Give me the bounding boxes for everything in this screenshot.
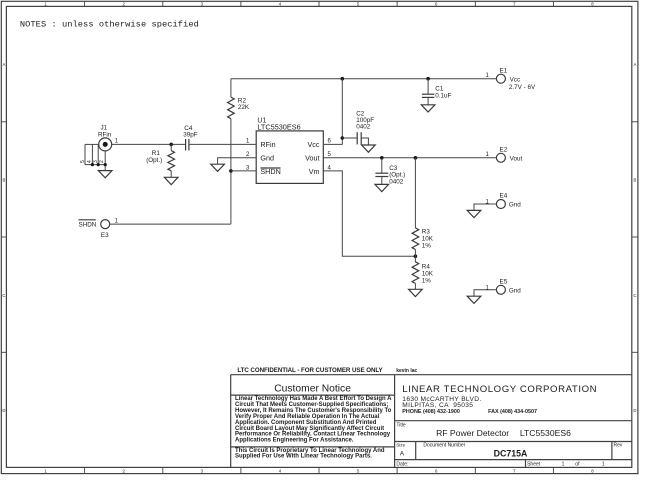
terminal E4: [496, 200, 505, 209]
svg-text:(Opt.): (Opt.): [146, 157, 162, 164]
svg-text:B: B: [633, 178, 636, 183]
svg-text:RF Power Detector: RF Power Detector: [436, 428, 509, 438]
svg-text:C: C: [2, 293, 5, 298]
svg-text:Vout: Vout: [510, 155, 523, 162]
svg-text:Vcc: Vcc: [510, 76, 520, 83]
svg-text:Supplied For Use With Linear T: Supplied For Use With Linear Technology …: [235, 454, 372, 460]
capacitor C4: [185, 139, 187, 150]
svg-text:22K: 22K: [238, 104, 250, 111]
svg-text:D: D: [633, 408, 636, 413]
resistor R3: [414, 158, 416, 228]
svg-text:39pF: 39pF: [183, 132, 198, 139]
svg-text:Vm: Vm: [309, 167, 320, 176]
svg-text:PHONE (408) 432-1900: PHONE (408) 432-1900: [402, 409, 460, 415]
op IC U1: [256, 131, 323, 184]
J1 shield pin numbers: [80, 160, 105, 163]
svg-text:Gnd: Gnd: [260, 153, 274, 162]
ground E5: [467, 296, 481, 303]
svg-text:Rev: Rev: [614, 442, 623, 448]
capacitor C2: [342, 137, 357, 139]
notice heading divider: [231, 394, 395, 396]
line under size/docnum row: [395, 459, 632, 461]
size column divider: [415, 442, 417, 460]
notice separator line: [231, 446, 395, 448]
svg-text:1%: 1%: [422, 243, 432, 250]
node rail/C1 junction: [426, 77, 430, 81]
svg-text:E4: E4: [500, 193, 508, 200]
svg-text:of: of: [575, 461, 580, 467]
svg-text:2: 2: [99, 160, 105, 163]
node R3 tap: [414, 156, 418, 160]
svg-text:1: 1: [602, 461, 605, 467]
border column ticks bottom: [85, 467, 554, 473]
border column numbers bottom: [44, 469, 594, 474]
node C3 tap: [380, 156, 384, 160]
svg-text:LINEAR TECHNOLOGY CORPORATION: LINEAR TECHNOLOGY CORPORATION: [402, 384, 597, 395]
svg-text:B: B: [2, 178, 5, 183]
wire pin2 Gnd: [218, 158, 257, 164]
terminal E1: [496, 74, 505, 83]
capacitor C1: [427, 79, 429, 95]
svg-text:Customer Notice: Customer Notice: [274, 384, 351, 395]
svg-text:10K: 10K: [422, 271, 434, 278]
resistor R4: [412, 262, 419, 284]
svg-text:0.1uF: 0.1uF: [435, 92, 451, 99]
customer notice box left edge: [230, 375, 232, 468]
border row letters left: [2, 62, 5, 413]
terminal E2: [496, 153, 505, 162]
border row letters right: [633, 62, 636, 413]
svg-text:A: A: [400, 451, 405, 458]
svg-text:DC715A: DC715A: [494, 448, 528, 458]
svg-text:1%: 1%: [422, 278, 432, 285]
ground E4: [467, 210, 481, 217]
svg-text:0402: 0402: [356, 124, 371, 131]
svg-text:Gnd: Gnd: [509, 202, 521, 209]
svg-text:R4: R4: [422, 264, 431, 271]
ground C1: [421, 105, 435, 112]
capacitor C3: [381, 158, 383, 173]
svg-text:A: A: [633, 62, 636, 67]
rev column divider: [611, 442, 613, 460]
svg-text:E2: E2: [500, 146, 508, 153]
node R3/R4/Vm junction: [414, 254, 418, 258]
node C2 tap: [341, 136, 345, 140]
wire pin4 Vm: [323, 171, 415, 256]
wire Vcc rail: [231, 78, 497, 80]
wire RFin: J1 to C4: [112, 143, 186, 145]
terminal E5: [496, 285, 505, 294]
svg-text:Sheet: Sheet: [527, 461, 541, 467]
svg-text:Vout: Vout: [305, 153, 319, 162]
svg-text:Date:: Date:: [396, 461, 408, 467]
svg-text:RFin: RFin: [98, 131, 112, 138]
node rail/Vcc vertical junction: [341, 77, 345, 81]
svg-text:E1: E1: [500, 67, 508, 74]
svg-text:Size: Size: [396, 443, 405, 448]
svg-text:LTC CONFIDENTIAL - FOR CUSTOME: LTC CONFIDENTIAL - FOR CUSTOMER USE ONLY: [237, 367, 383, 374]
border column ticks top: [85, 1, 554, 6]
svg-text:5: 5: [80, 160, 86, 163]
svg-text:SHDN: SHDN: [79, 221, 97, 228]
svg-text:LTC5530ES6: LTC5530ES6: [257, 122, 300, 131]
resistor R1: [170, 144, 172, 150]
svg-text:Applications Engineering For A: Applications Engineering For Assistance.: [235, 438, 354, 444]
wire pin3 SHDN: [231, 170, 256, 172]
svg-text:E5: E5: [500, 279, 508, 286]
svg-text:RFin: RFin: [260, 140, 275, 149]
svg-text:NOTES : unless otherwise speci: NOTES : unless otherwise specified: [20, 20, 199, 30]
wire pin6 Vcc to vertical: [323, 79, 342, 145]
resistor R2: [230, 79, 232, 97]
svg-text:kevin lac: kevin lac: [396, 368, 417, 374]
svg-text:1: 1: [562, 461, 565, 467]
node R1 tap: [169, 143, 173, 147]
title block top line: [231, 374, 632, 376]
svg-text:R3: R3: [422, 229, 431, 236]
ground R4: [409, 289, 423, 296]
svg-text:D: D: [2, 408, 5, 413]
phone fax: [402, 409, 537, 415]
svg-text:0402: 0402: [389, 178, 404, 185]
U1 pin numbers: [246, 139, 332, 172]
divider notice box / company block: [394, 375, 396, 468]
company block line under address: [395, 420, 632, 422]
svg-text:Gnd: Gnd: [509, 287, 521, 294]
J1 shield pins: [85, 144, 105, 170]
wire Vout row: [323, 157, 496, 159]
svg-text:Title: Title: [396, 422, 405, 428]
svg-text:A: A: [2, 62, 5, 67]
border row ticks left: [1, 122, 6, 352]
ground pin2: [211, 164, 225, 171]
svg-text:E3: E3: [101, 232, 109, 239]
terminal E3: [101, 220, 110, 229]
line under title row: [395, 441, 632, 443]
wire E4 to ground: [474, 204, 496, 210]
wire E3 SHDN net: [110, 223, 231, 225]
svg-text:10K: 10K: [422, 236, 434, 243]
ground C3: [375, 184, 389, 191]
company address: [402, 396, 481, 409]
wire R2 bottom to SHDN row: [230, 119, 232, 224]
svg-text:FAX (408) 434-0507: FAX (408) 434-0507: [488, 409, 537, 415]
svg-text:LTC5530ES6: LTC5530ES6: [520, 428, 571, 438]
svg-text:C: C: [633, 293, 636, 298]
wire C4 to U1 pin1: [189, 143, 256, 145]
sheet cell divider: [525, 460, 527, 468]
ground C2: [362, 145, 376, 152]
customer notice body text: [235, 396, 392, 460]
svg-text:Document Number: Document Number: [423, 443, 465, 449]
connector J1: [98, 125, 119, 151]
svg-text:Vcc: Vcc: [308, 140, 320, 149]
border row ticks right: [632, 122, 638, 352]
ground R1: [164, 177, 178, 184]
ground J1: [98, 171, 112, 178]
wire E5 to ground: [474, 290, 496, 296]
node pin3 tap: [229, 169, 233, 173]
svg-text:3: 3: [93, 160, 99, 163]
svg-text:2.7V - 6V: 2.7V - 6V: [509, 84, 536, 91]
border column numbers top: [44, 1, 594, 6]
